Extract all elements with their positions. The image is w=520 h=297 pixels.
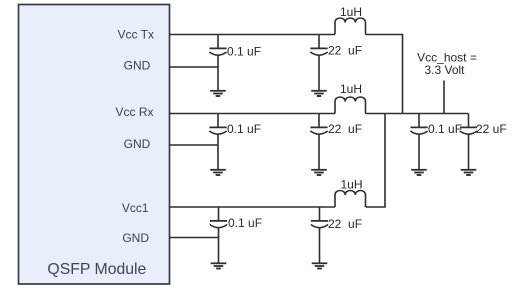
svg-text:22 uF: 22 uF [328, 217, 362, 231]
svg-text:GND: GND [124, 59, 151, 73]
svg-text:1uH: 1uH [340, 5, 362, 19]
svg-text:GND: GND [124, 137, 151, 151]
svg-text:22 uF: 22 uF [328, 122, 362, 136]
svg-text:QSFP Module: QSFP Module [47, 261, 146, 278]
svg-text:GND: GND [122, 231, 149, 245]
svg-text:Vcc Tx: Vcc Tx [118, 28, 154, 42]
svg-text:1uH: 1uH [340, 178, 362, 192]
svg-text:0.1 uF: 0.1 uF [227, 122, 261, 136]
svg-text:22 uF: 22 uF [476, 122, 507, 136]
svg-text:22 uF: 22 uF [328, 44, 362, 58]
svg-text:3.3 Volt: 3.3 Volt [424, 63, 465, 77]
svg-text:0.1 uF: 0.1 uF [428, 122, 462, 136]
svg-text:Vcc Rx: Vcc Rx [115, 105, 153, 119]
svg-text:0.1 uF: 0.1 uF [227, 44, 261, 58]
svg-text:1uH: 1uH [340, 82, 362, 96]
svg-text:0.1 uF: 0.1 uF [228, 216, 262, 230]
svg-text:Vcc1: Vcc1 [122, 201, 149, 215]
